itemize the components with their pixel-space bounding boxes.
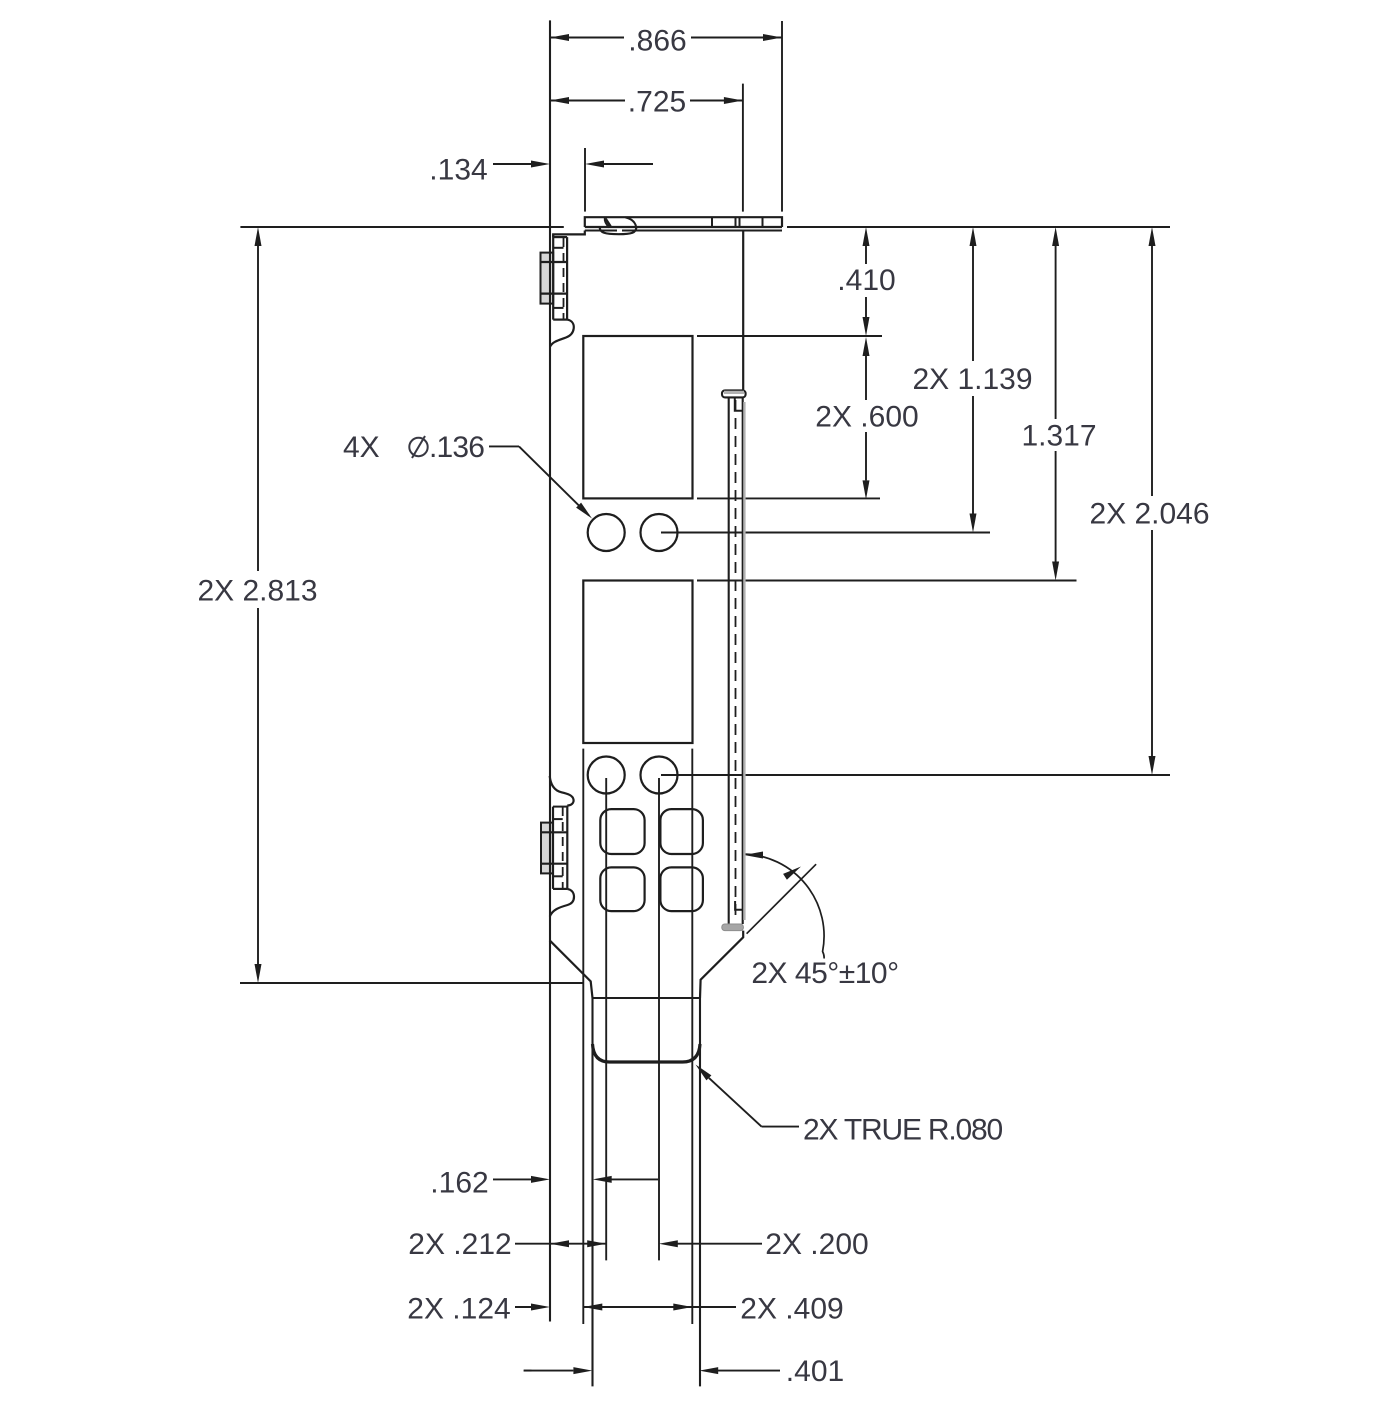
wire: extension line y=498.4 right of upper opening: [697, 497, 880, 499]
pin hidden centerline: [735, 400, 737, 921]
dimension .725 line and arrows: [550, 100, 625, 102]
dimension .134 line and arrows: [493, 163, 532, 165]
svg-text:.410: .410: [837, 264, 895, 297]
svg-text:.136: .136: [429, 431, 484, 464]
upper tab hidden line: [563, 238, 565, 319]
svg-text:2X .200: 2X .200: [765, 1228, 868, 1261]
hole lower-right: [641, 757, 678, 794]
svg-text:4X: 4X: [343, 431, 380, 464]
pin bottom tip bar: [722, 924, 744, 931]
wire: extension line x=692.3 below part: [691, 749, 693, 1324]
svg-text:2X .212: 2X .212: [408, 1228, 511, 1261]
dimension .162 line and arrows: [493, 1178, 532, 1180]
wire: top horizontal extension line y=227 right part: [787, 226, 1170, 228]
svg-text:1.317: 1.317: [1021, 420, 1096, 453]
wire: extension line x=585 above flange for .134: [584, 148, 586, 212]
right body edge upper segment: [742, 231, 744, 391]
wire: top horizontal extension line y=227 left part: [240, 226, 563, 228]
svg-text:.162: .162: [430, 1167, 488, 1200]
lower tab bottom hook: [550, 889, 574, 917]
lower tab hidden line: [562, 807, 564, 888]
svg-text:2X 1.139: 2X 1.139: [912, 363, 1032, 396]
svg-text:2X 2.046: 2X 2.046: [1089, 498, 1209, 531]
rounded square louver top-right: [660, 809, 703, 854]
pin bottom inner step: [735, 901, 742, 910]
hole upper-left: [588, 514, 625, 551]
upper side tab: gray pad: [541, 253, 554, 304]
rounded square louver bottom-right: [660, 867, 703, 911]
retention pin head: [722, 390, 746, 397]
dimension 2X .200 arrow and tail: [659, 1240, 678, 1247]
dimension .866 line and arrows: [550, 37, 624, 39]
wire: datum line visible over tab pads: [549, 253, 551, 304]
svg-text:2X TRUE R.080: 2X TRUE R.080: [803, 1114, 1002, 1147]
wire: leader line from lower right hole y=775: [661, 774, 1170, 776]
rounded square louver bottom-left: [600, 867, 644, 911]
svg-text:2X 45°±10°: 2X 45°±10°: [751, 957, 898, 990]
wire: extension line x=700 foot right edge: [699, 998, 701, 1386]
dimension 2X .212 line and arrows: [515, 1243, 606, 1245]
wire: extension line x=659 hole centers: [658, 778, 660, 1260]
svg-text:.725: .725: [628, 86, 686, 119]
dimension 1.317 vertical line and arrows: [1055, 246, 1057, 419]
lower side tab outline: [552, 807, 554, 889]
dimension .410 vertical line and arrows: [865, 246, 867, 264]
leader for 4X holes: [489, 445, 519, 447]
dimension 2X .409 line and arrows: [583, 1306, 692, 1308]
lower opening rectangle: [583, 581, 692, 744]
svg-text:2X .409: 2X .409: [740, 1293, 843, 1326]
foot bottom with true radius corners: [593, 1044, 701, 1062]
top flange plate: [585, 217, 782, 227]
lower side tab gray pad: [541, 823, 553, 874]
wire: main datum vertical line x=550: [549, 20, 551, 1321]
wire: extension line y=580.5 right of lower opening: [697, 580, 1077, 582]
wire: extension line y=336 right of upper opening: [697, 335, 882, 337]
leader for 2X TRUE R.080: [696, 1065, 712, 1081]
top-left corner step: [553, 231, 585, 238]
right body edge lower segment and chamfer: [700, 931, 743, 998]
svg-text:.401: .401: [786, 1355, 844, 1388]
dimension 2X 2.813 vertical line and arrows: [257, 246, 259, 571]
lower side tab: entry curve: [550, 776, 574, 806]
left chamfer edge: [550, 940, 593, 998]
wire: extension line y=983 for 2.813: [240, 982, 584, 984]
angular dimension arc for 2X 45: [745, 854, 824, 958]
dimension 2X .600 vertical line and arrows: [865, 356, 867, 400]
45 degree reference line: [747, 864, 817, 934]
wire: extension line x=782 above flange for .866: [781, 21, 783, 212]
upper opening rectangle: [583, 336, 692, 498]
wire: extension line x=742.9 above flange for .725: [742, 84, 744, 212]
svg-text:2X .600: 2X .600: [815, 401, 918, 434]
flange segment ticks: [711, 217, 713, 227]
dimension 2X 1.139 vertical line and arrows: [972, 246, 974, 361]
upper tab bottom hook: [550, 320, 574, 347]
wire: extension line x=592.5 foot left edge: [591, 998, 593, 1386]
pin head inner step: [735, 397, 743, 410]
hole lower-left: [588, 757, 625, 794]
pin shaft right edge: [742, 397, 744, 924]
pin shaft gray shadow: [743, 402, 745, 920]
dimension .401 line and arrows: [524, 1370, 532, 1372]
dimension 2X 2.046 vertical line and arrows: [1151, 246, 1153, 496]
pin shaft left edge: [728, 397, 730, 924]
wire: extension line x=583.3 below part: [582, 749, 584, 1324]
stamped dimple under flange: [605, 218, 610, 228]
rounded square louver top-left: [600, 809, 644, 854]
dimension 2X .124 line and arrow: [515, 1306, 532, 1308]
svg-text:.866: .866: [628, 25, 686, 58]
svg-text:2X .124: 2X .124: [407, 1293, 510, 1326]
svg-text:2X 2.813: 2X 2.813: [197, 575, 317, 608]
upper side tab outline: [552, 234, 554, 319]
wire: extension line x=606.2 hole centers: [605, 778, 607, 1260]
hole upper-right: [641, 514, 678, 551]
foot top fold line: [593, 997, 701, 999]
svg-text:.134: .134: [429, 154, 487, 187]
wire: leader line from upper right hole y=532.5: [661, 532, 990, 534]
